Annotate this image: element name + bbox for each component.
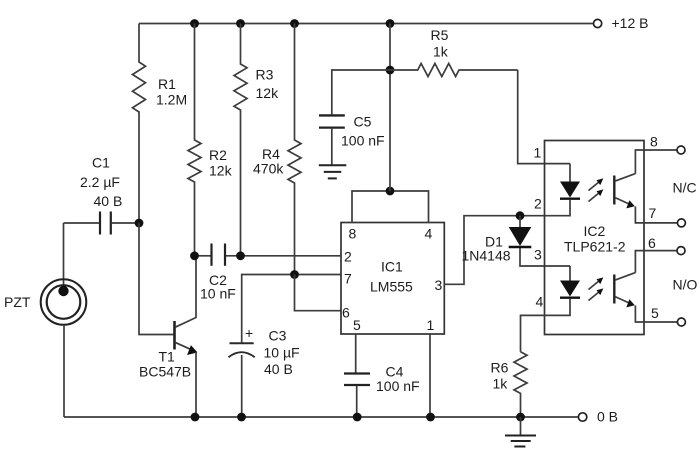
wire top +12V rail <box>139 23 593 25</box>
svg-text:3: 3 <box>534 247 542 263</box>
svg-text:1N4148: 1N4148 <box>462 248 511 264</box>
svg-text:3: 3 <box>435 277 443 293</box>
svg-text:40 B: 40 B <box>264 361 293 377</box>
ground C5 <box>319 164 347 166</box>
svg-text:5: 5 <box>651 305 659 321</box>
capacitor C3 10uF electrolytic <box>230 342 254 344</box>
light arrows LED1 <box>589 182 600 191</box>
ground main <box>520 417 522 435</box>
svg-text:C5: C5 <box>354 114 372 130</box>
node top rail junction R4 <box>290 19 299 28</box>
piezo PZT <box>41 279 87 325</box>
wire C1 to PZT <box>63 223 65 291</box>
node pin1 / rail <box>426 413 435 422</box>
light arrows LED2 <box>589 281 600 290</box>
svg-text:1k: 1k <box>433 44 449 60</box>
svg-text:N/C: N/C <box>673 180 697 196</box>
wire R4 node to IC1 pin6 <box>295 275 342 311</box>
diode D1 1N4148 <box>519 216 521 227</box>
phototransistor 1 of IC2 <box>613 176 615 205</box>
terminal pin 5 <box>677 318 685 326</box>
svg-text:1: 1 <box>427 317 435 333</box>
wire IC1 pin1 to rail <box>429 334 431 417</box>
svg-text:4: 4 <box>536 294 544 310</box>
svg-text:LM555: LM555 <box>370 279 413 295</box>
wire R1 node down to T1 base <box>139 223 174 335</box>
svg-text:12k: 12k <box>256 85 280 101</box>
svg-text:100 nF: 100 nF <box>376 378 420 394</box>
node R5/C5 tap <box>386 66 395 75</box>
svg-text:8: 8 <box>650 134 658 150</box>
wire PZT to bottom rail <box>63 326 65 417</box>
svg-text:0 B: 0 B <box>597 409 618 425</box>
node C2 right / R3 / pin2 <box>236 251 245 260</box>
LED 2 of IC2 <box>569 266 571 281</box>
resistor R2 12k <box>188 24 201 256</box>
svg-text:10 µF: 10 µF <box>264 345 300 361</box>
node top rail junction R2 <box>190 19 199 28</box>
capacitor C5 100nF <box>332 70 390 114</box>
node R6 / ground / rail <box>516 413 525 422</box>
svg-text:BC547B: BC547B <box>139 364 191 380</box>
capacitor C2 10nF <box>195 255 211 257</box>
svg-text:6: 6 <box>342 305 350 321</box>
terminal pin 7 <box>677 219 685 227</box>
node C1/R1 junction <box>135 219 144 228</box>
svg-text:2: 2 <box>534 196 542 212</box>
terminal pin 6 <box>677 247 685 255</box>
node T1 emitter / rail <box>191 413 200 422</box>
capacitor C4 100nF <box>355 334 357 373</box>
wire supply branch vertical <box>389 24 391 192</box>
wire IC2 pin4 to R6 <box>521 315 545 351</box>
node D1 anode <box>516 211 525 220</box>
svg-text:TLP621-2: TLP621-2 <box>564 239 626 255</box>
svg-text:IC2: IC2 <box>584 223 606 239</box>
node R4 bottom / pin7 <box>290 270 299 279</box>
svg-text:PZT: PZT <box>4 294 31 310</box>
svg-text:7: 7 <box>649 205 657 221</box>
svg-text:5: 5 <box>353 317 361 333</box>
svg-text:10 nF: 10 nF <box>200 286 236 302</box>
resistor R6 1k <box>514 352 527 417</box>
terminal 0 B <box>578 413 586 421</box>
svg-text:R2: R2 <box>209 147 227 163</box>
terminal pin 8 <box>677 146 685 154</box>
svg-text:1.2M: 1.2M <box>156 92 187 108</box>
svg-text:R1: R1 <box>158 76 176 92</box>
svg-text:470k: 470k <box>253 161 284 177</box>
wire IC1 pin3 to D1 node <box>444 216 544 285</box>
resistor R5 1k <box>390 64 518 77</box>
resistor R4 470k <box>288 24 301 275</box>
svg-text:+12 B: +12 B <box>612 15 649 31</box>
svg-text:4: 4 <box>425 226 433 242</box>
svg-text:IC1: IC1 <box>381 259 403 275</box>
resistor R3 12k <box>234 24 247 256</box>
node C3 / rail <box>237 413 246 422</box>
node top rail junction R3 <box>236 19 245 28</box>
svg-text:T1: T1 <box>159 349 176 365</box>
svg-text:7: 7 <box>344 271 352 287</box>
svg-text:2.2 µF: 2.2 µF <box>80 174 120 190</box>
capacitor C1 2.2uF <box>64 222 100 224</box>
IC U1 LM555 box <box>341 223 444 335</box>
wire IC1 pins 8+4 to supply branch <box>352 191 429 223</box>
svg-text:8: 8 <box>349 226 357 242</box>
wire R5 to IC2 pin1 <box>518 70 570 164</box>
svg-text:2: 2 <box>344 249 352 265</box>
node top rail junction supply branch <box>386 19 395 28</box>
svg-text:C1: C1 <box>92 155 110 171</box>
svg-text:1: 1 <box>534 145 542 161</box>
svg-text:N/O: N/O <box>673 277 698 293</box>
svg-text:R5: R5 <box>431 27 449 43</box>
wire bottom 0V rail <box>64 416 578 418</box>
svg-text:100 nF: 100 nF <box>341 133 385 149</box>
svg-text:40 B: 40 B <box>94 193 123 209</box>
svg-text:R6: R6 <box>491 360 509 376</box>
svg-text:6: 6 <box>648 235 656 251</box>
svg-text:+: + <box>245 325 253 341</box>
svg-text:C3: C3 <box>269 328 287 344</box>
phototransistor 2 of IC2 <box>613 275 615 304</box>
node C4 / rail <box>353 413 362 422</box>
node pins8/4 branch <box>386 187 395 196</box>
svg-text:R3: R3 <box>256 67 274 83</box>
svg-text:12k: 12k <box>209 163 233 179</box>
LED 1 of IC2 <box>569 164 571 182</box>
svg-text:1k: 1k <box>493 376 509 392</box>
transistor T1 BC547B <box>173 321 176 350</box>
node C2 left / T1 collector / R2 <box>190 251 199 260</box>
wire C3 top to IC1 pin7 <box>242 275 341 344</box>
terminal +12 B <box>594 19 602 27</box>
IC U2 TLP621-2 box <box>545 141 645 335</box>
resistor R1 1.2M <box>133 24 146 224</box>
